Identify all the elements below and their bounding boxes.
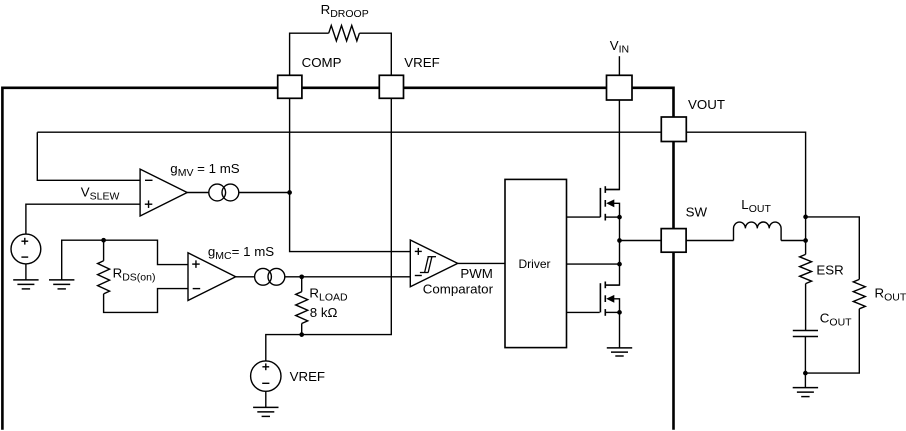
svg-text:SW: SW: [686, 205, 708, 220]
svg-text:VREF: VREF: [404, 55, 439, 70]
svg-text:COMP: COMP: [302, 55, 342, 70]
svg-text:Driver: Driver: [519, 257, 551, 271]
svg-text:Comparator: Comparator: [423, 282, 494, 297]
svg-text:ESR: ESR: [816, 263, 843, 278]
svg-text:8 kΩ: 8 kΩ: [310, 305, 338, 320]
svg-text:PWM: PWM: [460, 266, 493, 281]
svg-text:VREF: VREF: [290, 369, 325, 384]
svg-text:VOUT: VOUT: [688, 97, 725, 112]
